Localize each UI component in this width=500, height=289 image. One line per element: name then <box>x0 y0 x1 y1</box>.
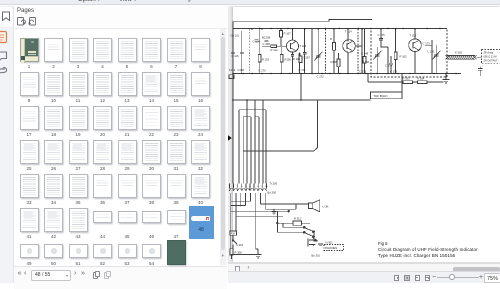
svg-text:C 170: C 170 <box>259 69 267 73</box>
svg-text:Type HUZE incl. Charger BN 15: Type HUZE incl. Charger BN 150156 <box>378 253 456 258</box>
svg-text:F30: F30 <box>231 233 236 236</box>
svg-text:Tr 200: Tr 200 <box>270 182 278 186</box>
svg-text:R 167: R 167 <box>284 32 292 36</box>
svg-text:R158: R158 <box>331 60 338 64</box>
svg-text:C167: C167 <box>304 56 311 60</box>
svg-text:R 162: R 162 <box>400 55 408 59</box>
svg-text:Fig 6: Fig 6 <box>378 241 388 246</box>
svg-text:R 114: R 114 <box>271 48 278 52</box>
svg-text:TAF B(Hz): TAF B(Hz) <box>374 94 388 98</box>
svg-text:R 160: R 160 <box>362 60 370 64</box>
svg-text:C 172: C 172 <box>317 75 325 79</box>
svg-text:PHONES: PHONES <box>325 246 337 250</box>
svg-text:2: 2 <box>233 186 235 188</box>
svg-text:3: 3 <box>237 186 239 188</box>
svg-text:R 308: R 308 <box>235 251 243 255</box>
svg-text:C 175: C 175 <box>359 70 367 74</box>
svg-text:C 114: C 114 <box>253 40 260 44</box>
svg-text:T 114: T 114 <box>345 30 352 34</box>
svg-text:C 168: C 168 <box>263 42 271 46</box>
svg-text:N 301: N 301 <box>326 240 334 244</box>
svg-text:R 165: R 165 <box>293 57 301 61</box>
svg-text:4: 4 <box>241 186 243 188</box>
svg-text:C 173: C 173 <box>423 42 431 46</box>
svg-text:R 164: R 164 <box>417 77 425 81</box>
svg-text:C 116: C 116 <box>232 54 239 58</box>
svg-text:C 175: C 175 <box>378 33 386 37</box>
svg-text:9: 9 <box>261 186 263 188</box>
svg-text:ZF-OUTPUT: ZF-OUTPUT <box>484 60 499 63</box>
svg-text:R 311: R 311 <box>294 217 301 221</box>
svg-text:1: 1 <box>229 186 231 188</box>
svg-text:C 174: C 174 <box>385 64 393 68</box>
svg-text:Gn 10): Gn 10) <box>231 34 239 38</box>
svg-text:600 Ω 21 M: 600 Ω 21 M <box>484 56 497 59</box>
svg-text:BC168: BC168 <box>262 36 271 40</box>
svg-text:8: 8 <box>258 186 260 188</box>
svg-text:Circuit Diagram of UHF Field-S: Circuit Diagram of UHF Field-Strength In… <box>378 247 478 252</box>
svg-text:R 153: R 153 <box>262 58 270 62</box>
svg-text:C164: C164 <box>229 68 236 72</box>
svg-text:R156: R156 <box>285 58 292 62</box>
svg-text:S 301: S 301 <box>236 243 244 247</box>
svg-text:U 3K: U 3K <box>323 205 329 209</box>
svg-text:R 163: R 163 <box>403 77 411 81</box>
svg-text:C 176: C 176 <box>390 70 398 74</box>
svg-text:5: 5 <box>245 186 247 188</box>
svg-text:T 115: T 115 <box>410 34 417 38</box>
svg-text:Bu 300: Bu 300 <box>268 191 277 195</box>
svg-text:10: 10 <box>265 186 268 188</box>
svg-text:Bu 301: Bu 301 <box>312 254 321 258</box>
svg-text:C 148: C 148 <box>361 52 369 56</box>
svg-text:ZF-Ausg: ZF-Ausg <box>484 52 494 55</box>
svg-text:C 171: C 171 <box>299 68 307 72</box>
svg-text:L 170: L 170 <box>428 50 435 54</box>
svg-text:R: R <box>330 37 332 41</box>
svg-text:K 302: K 302 <box>455 51 463 55</box>
svg-text:C168: C168 <box>238 68 245 72</box>
svg-text:6: 6 <box>249 186 251 188</box>
svg-text:T 116: T 116 <box>300 44 307 48</box>
svg-text:7: 7 <box>253 186 255 188</box>
